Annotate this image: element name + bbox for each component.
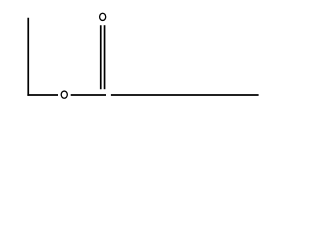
bond C3-chain (long horizontal alkyl chain to the right) xyxy=(111,94,259,96)
bond O-C3 (horizontal from ester oxygen to carbonyl carbon) xyxy=(71,94,106,96)
bond C2-O (horizontal to ester oxygen) xyxy=(27,94,58,96)
bond C1-C2 (ethyl CH3-CH2, vertical) xyxy=(27,18,29,96)
double bond C3=O line 2 (right) xyxy=(104,25,106,89)
atom O (carbonyl oxygen) xyxy=(100,13,106,20)
atom O (ester oxygen) xyxy=(61,91,67,98)
double bond C3=O line 1 (left) xyxy=(100,25,102,89)
